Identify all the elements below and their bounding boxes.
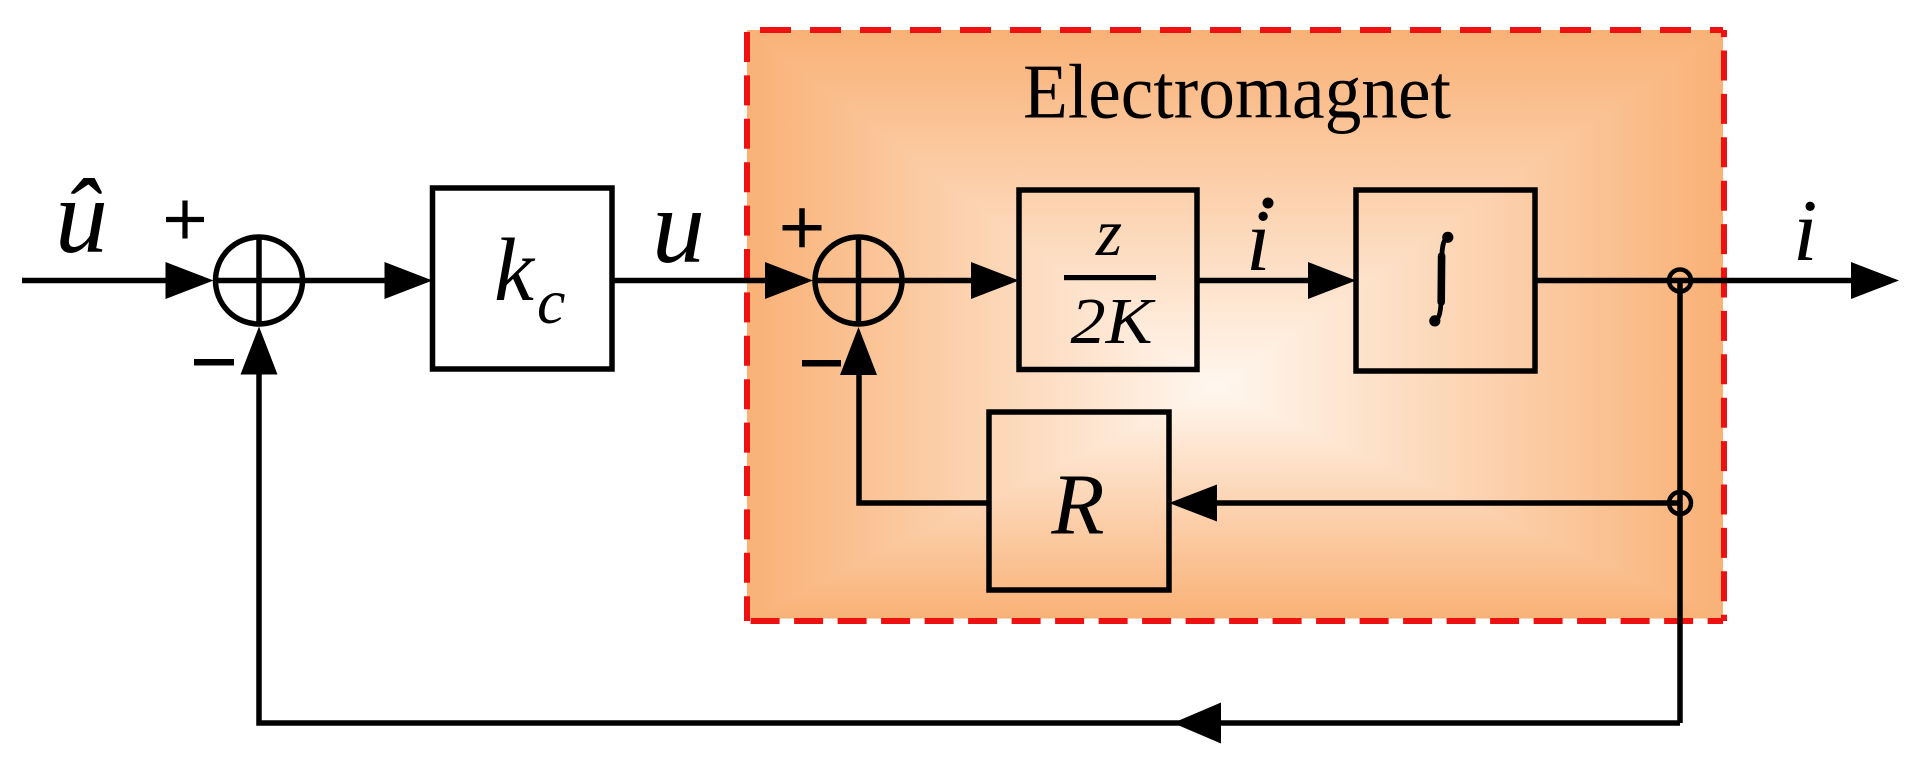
minus sign at S1 bbox=[194, 359, 234, 366]
plus sign at S2 bbox=[783, 208, 822, 247]
summing junction S2 bbox=[815, 237, 902, 324]
arrowhead into integrator bbox=[1308, 262, 1356, 299]
arrowhead into z2K bbox=[971, 262, 1019, 299]
summing junction S1 bbox=[216, 237, 303, 324]
svg-text:c: c bbox=[537, 266, 565, 337]
arrowhead into S2 bbox=[765, 262, 813, 299]
Electromagnet subsystem dashed border right bbox=[1721, 30, 1727, 621]
block R bbox=[989, 412, 1169, 590]
wire vertical from N1 down bbox=[1677, 281, 1683, 724]
arrowhead into S1 bbox=[166, 262, 214, 299]
wire kc to S2 bbox=[612, 278, 770, 284]
block integrator bbox=[1356, 190, 1535, 371]
wire S2 to z2K bbox=[902, 278, 976, 284]
Electromagnet subsystem dashed border top bbox=[747, 27, 1723, 33]
arrowhead into R bbox=[1169, 485, 1217, 522]
svg-text:u: u bbox=[652, 168, 705, 285]
arrowhead output bbox=[1851, 262, 1899, 299]
minus sign at S2 bbox=[802, 360, 841, 367]
wire S1 to kc bbox=[303, 278, 391, 284]
arrowhead up into S1 bbox=[241, 327, 278, 375]
plus sign at S1 bbox=[166, 201, 204, 239]
arrowhead into kc bbox=[385, 262, 433, 299]
svg-text:2K: 2K bbox=[1071, 285, 1156, 358]
svg-text:û: û bbox=[55, 158, 108, 275]
svg-text:R: R bbox=[1050, 456, 1104, 553]
block z/2K bbox=[1019, 190, 1197, 370]
svg-text:z: z bbox=[1095, 196, 1122, 270]
node N2 takeoff bbox=[1669, 492, 1691, 514]
Electromagnet subsystem dashed border bottom bbox=[747, 618, 1723, 624]
wire bottom feedback bbox=[259, 370, 1680, 723]
wire integrator to output bbox=[1535, 278, 1855, 284]
fraction bar bbox=[1064, 275, 1156, 280]
arrowhead up into S2 bbox=[840, 327, 877, 375]
svg-text:i: i bbox=[1793, 183, 1817, 280]
Electromagnet subsystem box fill bbox=[747, 30, 1723, 619]
node N1 takeoff bbox=[1669, 270, 1691, 292]
wire R to S2 (up) bbox=[859, 370, 989, 503]
arrowhead mid bottom bbox=[1173, 703, 1221, 744]
wire N2 to R bbox=[1216, 500, 1680, 506]
block kc bbox=[433, 188, 613, 369]
integral sign bbox=[1435, 238, 1448, 321]
wire input bbox=[22, 278, 170, 284]
svg-text:Electromagnet: Electromagnet bbox=[1023, 49, 1451, 135]
svg-text:k: k bbox=[494, 221, 536, 320]
wire z2K to integrator bbox=[1197, 278, 1313, 284]
Electromagnet subsystem dashed border left bbox=[744, 30, 750, 621]
